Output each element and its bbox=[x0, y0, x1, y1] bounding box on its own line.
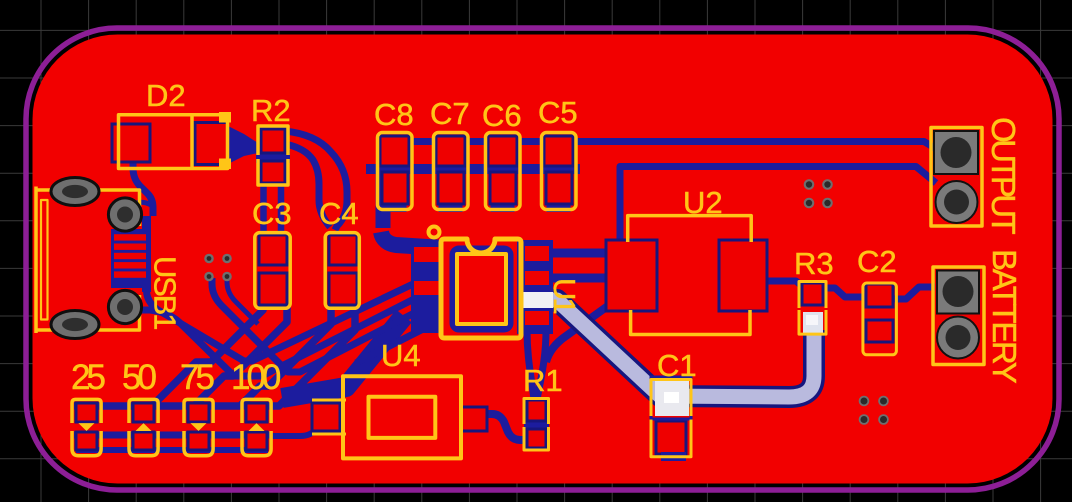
wire R2 pad2 to C3 pad1 right bbox=[278, 181, 285, 233]
usb USB1 bottom arm bbox=[36, 295, 140, 330]
svg-text:D2: D2 bbox=[146, 78, 186, 113]
jumper JP1 pad 2 bbox=[76, 432, 97, 450]
jumper JP4 outline bbox=[242, 399, 271, 455]
regulator U2 pad 2 bbox=[719, 240, 767, 311]
resistor R2 pad 2 bbox=[261, 161, 285, 183]
usb USB1 shield hole top bbox=[108, 198, 141, 231]
ic U1 thermal pad border bbox=[453, 249, 510, 329]
ic U1 pad row1 right bbox=[525, 246, 549, 261]
usb USB1 mount oval top bbox=[51, 178, 99, 206]
capacitor C8 pad 2 bbox=[382, 172, 408, 204]
capacitor C5 outline bbox=[542, 133, 577, 210]
connector BATTERY outline bbox=[933, 267, 984, 365]
resistor R3 pad 2 highlighted bbox=[803, 312, 823, 333]
traces bbox=[74, 125, 943, 450]
svg-text:25: 25 bbox=[71, 358, 104, 397]
via cluster bottom right bbox=[859, 396, 889, 425]
svg-text:OUTPUT: OUTPUT bbox=[985, 117, 1022, 235]
svg-text:R3: R3 bbox=[794, 246, 834, 281]
capacitor C8 outline bbox=[378, 133, 413, 210]
wire jumper bus lower bbox=[76, 447, 268, 453]
capacitor C6 pad 1 bbox=[488, 136, 517, 166]
capacitor C7 outline bbox=[434, 133, 469, 210]
ic U4 inner rect bbox=[369, 397, 436, 438]
wire via to U1 row4 bbox=[212, 278, 441, 372]
wire D2 pad2 funnel to R2 bbox=[226, 125, 258, 165]
capacitor C1 pad 1 center bbox=[664, 392, 679, 403]
wire R2 to C4 pad1 outer arc bbox=[284, 131, 347, 230]
resistor R1 pad 1 bbox=[527, 400, 546, 421]
svg-text:U4: U4 bbox=[381, 338, 421, 373]
ic U4 outline bbox=[343, 376, 461, 458]
wire C1 pad2 stub bbox=[661, 452, 686, 461]
svg-text:R1: R1 bbox=[523, 363, 563, 398]
capacitor C8 pad 1 bbox=[380, 136, 409, 166]
wire R3 pad1 to C2 pad1 bbox=[823, 288, 866, 297]
regulator U2 outline bottom bbox=[631, 310, 750, 335]
capacitor C2 pad 1 bbox=[866, 284, 893, 307]
jumper JP3 pad 2 bbox=[188, 432, 209, 450]
wire mid bus taper to U1 bbox=[381, 232, 443, 248]
wire via tail second bbox=[227, 277, 258, 324]
via cluster near USB bbox=[204, 254, 232, 282]
wire D2 pad1 down to vias bbox=[133, 160, 153, 216]
svg-text:C4: C4 bbox=[319, 196, 359, 231]
svg-text:BATTERY: BATTERY bbox=[986, 249, 1023, 384]
capacitor C4 pad 2 bbox=[329, 273, 357, 305]
ic U4 pad 1 bbox=[312, 403, 340, 431]
usb USB1 mount oval bottom bbox=[51, 311, 99, 339]
wire C4 pad2 to JP3 bbox=[198, 306, 331, 406]
connector OUTPUT pin 2 round pad bbox=[936, 181, 978, 223]
svg-text:U2: U2 bbox=[683, 185, 723, 220]
capacitor C1 clearance ring bbox=[651, 377, 691, 419]
wire USB shield to U1 row3 bbox=[133, 296, 441, 376]
ic U1 inner rect bbox=[457, 254, 506, 324]
resistor R1 outline bbox=[524, 399, 549, 451]
jumper JP2 pad 2 bbox=[133, 432, 154, 450]
wire jumper bus upper bbox=[74, 403, 270, 410]
connector BATTERY pin 2 round pad bbox=[937, 317, 979, 359]
wire U1 row5 stub bbox=[356, 320, 441, 363]
capacitor C4 pad 1 bbox=[329, 235, 357, 265]
resistor R3 pad 2 center bbox=[806, 315, 818, 325]
resistor R2 outline bottom bbox=[258, 159, 288, 185]
ic U1 right clearance zone bbox=[517, 240, 553, 334]
svg-text:C2: C2 bbox=[857, 244, 897, 279]
highlighted net clearance outline bbox=[551, 300, 814, 397]
diode D2 pad 1 bbox=[112, 124, 150, 162]
jumper JP3 outline bbox=[184, 399, 213, 455]
resistor R3 pad 1 bbox=[802, 283, 823, 305]
wire C2 pad1 to BATTERY pin 1 bbox=[893, 287, 935, 299]
resistor R1 pad 2 bbox=[527, 429, 546, 448]
diode D2 cathode mark top bbox=[219, 112, 231, 123]
jumper JP4 pad 2 bbox=[246, 432, 267, 450]
fiducial dot near U1 bbox=[429, 227, 440, 238]
regulator U2 outline top bbox=[628, 216, 752, 242]
capacitor C2 pad 2 bbox=[866, 320, 893, 342]
svg-text:R2: R2 bbox=[251, 93, 291, 128]
ic U1 pad row2 right bbox=[525, 271, 549, 285]
capacitor C7 pad 1 bbox=[436, 136, 465, 166]
connector OUTPUT outline bbox=[931, 128, 982, 227]
capacitor C1 pad 1 highlighted bbox=[655, 380, 689, 416]
wire thick bus near U4 bbox=[282, 316, 404, 398]
capacitor C5 pad 2 bbox=[546, 172, 572, 204]
wire USB pins vertical bar bbox=[142, 216, 151, 292]
wire C3 pad2 to JP2 bbox=[143, 306, 287, 406]
wire R2 to C4 pad1 inner arc bbox=[285, 144, 330, 227]
ic U1 outline with notch bbox=[441, 239, 521, 338]
usb USB1 tongue rect bbox=[41, 200, 48, 320]
usb USB1 shell left line bbox=[34, 187, 38, 334]
capacitor C3 pad 2 bbox=[259, 273, 287, 305]
diode D2 divider bbox=[190, 115, 194, 169]
wire U1 pad row2 to U2 bbox=[549, 274, 608, 283]
via cluster top right bbox=[804, 179, 833, 208]
wire U1 pad row1 to U2 bbox=[549, 249, 608, 258]
wire cap bottom stubs bbox=[395, 200, 559, 212]
wire branch to USB shield pad bbox=[134, 202, 151, 205]
wire R2 middle cross bbox=[256, 150, 290, 163]
jumper JP2 arrow bbox=[136, 423, 152, 431]
jumper JP1 outline bbox=[72, 399, 101, 455]
holes and vias bbox=[51, 131, 979, 425]
svg-text:C5: C5 bbox=[538, 95, 578, 130]
svg-text:USB1: USB1 bbox=[148, 256, 183, 329]
ic U4 pad1 marks bbox=[312, 400, 346, 434]
resistor R3 outline bbox=[799, 282, 826, 335]
diode D2 cathode mark bottom bbox=[219, 159, 231, 170]
svg-text:100: 100 bbox=[231, 358, 281, 397]
capacitor C6 pad 2 bbox=[490, 172, 516, 204]
silkscreen bbox=[36, 112, 984, 458]
wire jumper bus middle bbox=[74, 432, 272, 439]
jumper JP4 arrow bbox=[249, 423, 265, 431]
highlighted net trace U1 to C1 to R3 bbox=[551, 300, 814, 397]
ic U1 left clearance zone bbox=[411, 241, 442, 333]
wire U2 pad1 to OUTPUT pin 2 bbox=[620, 167, 936, 245]
jumper JP3 pad 1 bbox=[188, 403, 209, 422]
diode D2 pad 2 bbox=[195, 123, 228, 165]
usb USB1 shield hole bottom bbox=[108, 290, 141, 323]
wire USB pins to U1 row2 bbox=[147, 284, 442, 361]
capacitor C2 outline bbox=[863, 283, 897, 355]
jumper JP2 outline bbox=[129, 399, 158, 455]
connector BATTERY pin 1 square pad bbox=[937, 271, 979, 314]
jumper JP1 arrow bbox=[78, 423, 94, 431]
usb USB1 top arm bbox=[36, 190, 140, 226]
jumper JP4 pad 1 bbox=[246, 403, 267, 422]
svg-text:C6: C6 bbox=[482, 98, 522, 133]
svg-text:50: 50 bbox=[122, 358, 156, 397]
wire R1 pad2 to U4 pad2 bbox=[486, 414, 528, 440]
wire C3 pad2 to JP1 bbox=[86, 306, 263, 406]
wire U1 bottom to R1 pad1 left bbox=[527, 330, 534, 400]
wire top bus C8-C5 to OUTPUT pin 1 bbox=[378, 142, 943, 154]
jumper JP2 pad 1 bbox=[133, 403, 154, 422]
svg-text:C3: C3 bbox=[252, 196, 292, 231]
svg-text:C1: C1 bbox=[657, 348, 697, 383]
wire jumper bus to U4 pad bbox=[272, 428, 316, 436]
wire R1 middle cross bbox=[524, 420, 549, 431]
regulator U2 pad 1 bbox=[606, 240, 657, 311]
wire R2 pad2 to C3 pad1 left bbox=[260, 181, 267, 233]
usb USB1 pins bbox=[114, 234, 146, 278]
wire mid bus across C8-C5 bbox=[366, 164, 580, 174]
ic U1 pad row2 left bbox=[414, 281, 440, 295]
svg-text:75: 75 bbox=[180, 358, 213, 397]
resistor R2 pad 1 bbox=[261, 129, 285, 153]
wire U2 pad2 to R3 pad1 bbox=[767, 281, 803, 287]
svg-text:C8: C8 bbox=[374, 97, 414, 132]
ic U1 pad row1 left bbox=[414, 247, 440, 262]
wire mid bus elbow down bbox=[376, 164, 391, 228]
capacitor C1 outline bbox=[651, 380, 691, 457]
connector OUTPUT pin 1 square pad bbox=[934, 131, 978, 174]
capacitor C3 pad 1 bbox=[259, 235, 287, 265]
pads bbox=[76, 123, 893, 462]
capacitor C1 pad 2 bbox=[656, 421, 686, 454]
svg-text:U1: U1 bbox=[547, 278, 582, 313]
jumper JP3 arrow bbox=[190, 423, 206, 431]
resistor R2 outline top bbox=[258, 126, 288, 155]
ic U4 pad 2 bbox=[461, 407, 487, 431]
capacitor C4 outline bbox=[325, 233, 359, 309]
wire U2 pad1 bottom left bbox=[546, 303, 612, 362]
capacitor C5 pad 1 bbox=[544, 136, 573, 166]
capacitor C7 pad 2 bbox=[438, 172, 464, 204]
diode D2 outline bbox=[119, 115, 228, 169]
capacitor C3 outline bbox=[255, 233, 290, 309]
ic U1 pad row4 right bbox=[525, 311, 549, 325]
wire C4 pad2 to JP4 bbox=[256, 306, 355, 406]
capacitor C6 outline bbox=[486, 133, 521, 210]
usb USB1 pin field bbox=[111, 229, 151, 288]
wire U1 bottom to R1 pad1 right bbox=[537, 330, 546, 400]
ic U1 highlighted pad bar bbox=[523, 292, 553, 308]
svg-text:C7: C7 bbox=[430, 96, 470, 131]
jumper JP1 pad 1 bbox=[76, 403, 97, 422]
